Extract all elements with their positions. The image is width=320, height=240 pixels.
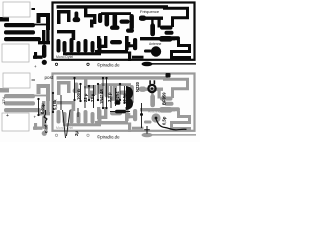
svg-text:Antenne: Antenne [149,42,161,46]
svg-text:22 p: 22 p [83,93,88,102]
svg-text:+: + [6,113,9,119]
svg-text:©piradio.de: ©piradio.de [97,62,120,67]
svg-text:+: + [34,115,37,120]
svg-text:1N4148: 1N4148 [99,89,104,104]
svg-text:BF959: BF959 [162,92,167,105]
svg-text:0,01µ: 0,01µ [40,103,45,114]
svg-text:12V: 12V [1,97,6,104]
svg-text:Antenne: Antenne [148,110,160,114]
svg-text:5,10k: 5,10k [53,99,58,110]
svg-text:elad: elad [44,124,49,133]
svg-text:Fréquence: Fréquence [140,9,160,14]
svg-text:©piradio.de: ©piradio.de [97,134,120,139]
svg-text:post: post [45,75,54,80]
svg-text:+: + [34,64,37,69]
svg-text:BF254: BF254 [115,91,120,104]
svg-text:0,5p: 0,5p [162,116,167,125]
svg-text:2µ: 2µ [74,131,79,136]
svg-text:Mono Dytel: Mono Dytel [56,55,73,59]
svg-text:10,5p: 10,5p [122,93,127,104]
svg-text:3,3 p: 3,3 p [107,92,112,102]
svg-text:22 µ: 22 µ [90,93,95,102]
svg-text:N220: N220 [135,81,140,92]
svg-text:100 n: 100 n [76,89,81,100]
